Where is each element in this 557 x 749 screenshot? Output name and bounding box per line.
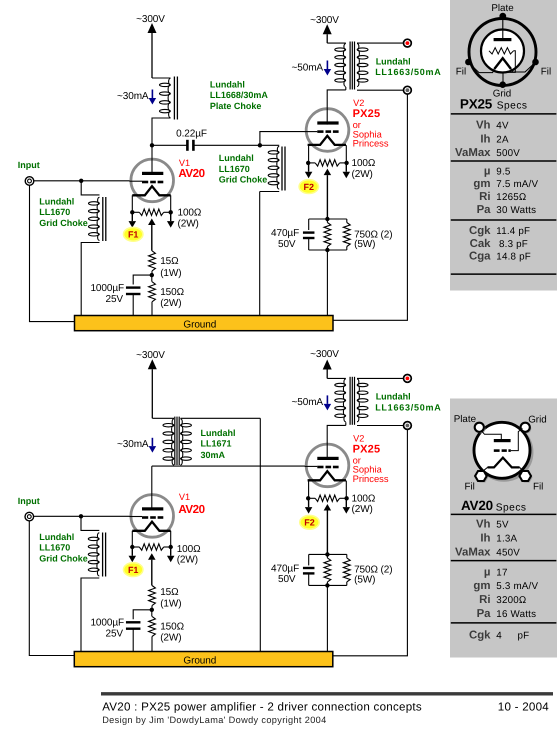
wire T3 secondary top to output terminal xyxy=(357,377,403,379)
svg-text:Input: Input xyxy=(18,496,40,506)
svg-text:5V: 5V xyxy=(496,519,509,530)
wire T2 secondary top to ground drop xyxy=(180,417,260,419)
svg-text:LL1663/50mA: LL1663/50mA xyxy=(375,402,441,412)
wire input shield to ground bar (circuit 1) xyxy=(30,185,75,321)
transformer T1 core xyxy=(349,42,351,90)
resistor R12 750 ohm cathode B (circuit 2) xyxy=(346,554,348,558)
inductor L2 Lundahl LL1670 grid choke (circuit 1 middle) xyxy=(260,144,279,146)
svg-text:0.22µF: 0.22µF xyxy=(176,128,207,139)
wire output terminal - to ground (circuit 2) xyxy=(333,429,407,655)
svg-text:16 Watts: 16 Watts xyxy=(496,609,536,620)
node IN1 junction input / grid choke xyxy=(79,179,83,183)
capacitor C1 0.22uF coupling xyxy=(186,140,189,151)
svg-text:Grid: Grid xyxy=(528,415,547,426)
wire B+ down arrow (circuit 2 right) xyxy=(326,370,328,379)
svg-text:~300V: ~300V xyxy=(136,14,165,25)
svg-text:9.5: 9.5 xyxy=(496,166,511,177)
svg-text:gm: gm xyxy=(473,580,490,592)
tube V2 PX25 output (circuit 1) xyxy=(306,109,349,152)
svg-text:30mA: 30mA xyxy=(201,450,226,460)
AV20 base diagram fil lead right xyxy=(520,467,524,471)
svg-text:Princess: Princess xyxy=(353,138,389,149)
wire node A1 to V1 plate xyxy=(151,145,153,172)
transformer T3 secondary coil xyxy=(357,383,368,386)
core of plate choke L1 xyxy=(173,77,175,120)
node K4 top junction (circuit 2) xyxy=(309,553,347,555)
PX25 base diagram plate pin dot xyxy=(499,13,506,20)
svg-text:µ: µ xyxy=(484,567,491,579)
svg-text:Princess: Princess xyxy=(353,473,389,484)
wire grid choke L2 bottom to ground xyxy=(259,192,261,316)
wire capacitor C2 to ground xyxy=(132,293,134,315)
resistor R1 100 ohm hum balance V1 (circuit 1) xyxy=(132,211,139,213)
AV20 base diagram fil lead left xyxy=(483,467,488,471)
arrow V2 cathode tap up (circuit 2) xyxy=(326,511,328,555)
svg-text:25V: 25V xyxy=(106,629,124,640)
svg-text:Grid Choke: Grid Choke xyxy=(219,175,268,185)
PX25 base diagram grid zigzag xyxy=(489,48,514,54)
svg-text:V1: V1 xyxy=(179,492,190,502)
AV20 base diagram envelope shadow xyxy=(476,424,532,480)
resistor R9 150 ohm cathode (circuit 2) xyxy=(151,610,153,617)
svg-text:Ri: Ri xyxy=(479,594,490,606)
AV20 base diagram plate bar xyxy=(494,439,511,442)
node IN2 junction input / grid choke xyxy=(79,514,83,518)
svg-text:LL1670: LL1670 xyxy=(39,543,70,553)
node A1 junction V1 plate / coupling cap xyxy=(150,143,154,147)
label F2 filament supply (circuit 2) xyxy=(300,515,319,529)
svg-text:(2W): (2W) xyxy=(160,633,181,644)
arrow V1 filament right down (circuit 2) xyxy=(170,547,172,556)
svg-text:Vh: Vh xyxy=(476,120,491,132)
wire node A1 to capacitor C1 xyxy=(152,144,187,146)
AV20 base diagram plate pin xyxy=(476,424,485,433)
transformer T3 primary coil xyxy=(335,383,346,386)
arrow V1 filament right down xyxy=(170,212,172,221)
PX25 base diagram outer ring xyxy=(469,19,536,86)
label F1 filament supply (circuit 2) xyxy=(124,563,143,577)
svg-text:Ground: Ground xyxy=(183,319,216,330)
wire T2 secondary drop to ground (circuit 2) xyxy=(259,418,261,651)
svg-text:µ: µ xyxy=(484,165,491,177)
wire cathode network to ground (circuit 2) xyxy=(326,585,328,651)
AV20 base diagram grid lead xyxy=(511,429,523,451)
AV20 base diagram grid pin xyxy=(522,424,531,433)
svg-text:(2W): (2W) xyxy=(178,218,199,229)
transformer T3 core xyxy=(349,377,351,425)
node K2 bottom junction (circuit 1) xyxy=(309,249,347,251)
separator line PX25 panel 2 xyxy=(451,160,557,162)
footer separator rule xyxy=(101,692,553,695)
tube V1 AV20 driver (circuit 2) xyxy=(131,495,174,538)
terminal output + (circuit 2) xyxy=(404,375,412,383)
wire V1 filament legs down (circuit 1) xyxy=(131,195,133,212)
separator line PX25 panel 4 xyxy=(451,273,557,275)
svg-text:V2: V2 xyxy=(353,434,364,444)
svg-text:Input: Input xyxy=(18,160,40,170)
svg-text:LL1670: LL1670 xyxy=(39,207,70,217)
transformer T3 Lundahl LL1663 output primary wire xyxy=(327,377,346,379)
svg-text:Pa: Pa xyxy=(477,204,492,216)
svg-text:Lundahl: Lundahl xyxy=(210,80,245,90)
svg-text:Specs: Specs xyxy=(496,502,527,513)
svg-text:Grid Choke: Grid Choke xyxy=(39,553,88,563)
wire T2 bottom to V1 plate and V2 grid (circuit 2) xyxy=(152,465,317,467)
arrow V2 cathode tap up (circuit 1) xyxy=(326,175,328,219)
resistor R6 750 ohm cathode B (circuit 1) xyxy=(346,219,348,223)
svg-text:1000µF: 1000µF xyxy=(90,283,124,294)
connector J2 input jack (circuit 2) xyxy=(25,512,34,521)
wire node K1 to capacitor C2 xyxy=(133,275,152,284)
svg-text:100Ω: 100Ω xyxy=(178,208,202,219)
node K2 top junction (circuit 1) xyxy=(309,218,347,220)
transformer T2 Lundahl LL1671 interstage primary wire xyxy=(152,417,174,419)
svg-text:LL1670: LL1670 xyxy=(219,164,250,174)
inductor L1 Lundahl LL1668 plate choke coil xyxy=(160,83,171,86)
wire grid choke L3 bottom to ground xyxy=(81,243,99,316)
svg-text:17: 17 xyxy=(496,568,507,579)
svg-text:~300V: ~300V xyxy=(136,350,165,361)
AV20 base diagram envelope xyxy=(474,422,530,478)
PX25 base diagram envelope xyxy=(481,30,524,73)
svg-text:Design by Jim 'DowdyLama' Dowd: Design by Jim 'DowdyLama' Dowdy copyrigh… xyxy=(102,715,326,725)
node K1 cathode junction (circuit 1) xyxy=(151,271,153,275)
svg-text:15Ω: 15Ω xyxy=(160,256,179,267)
wire node IN1 down to grid choke L3 xyxy=(81,181,99,195)
svg-text:Plate: Plate xyxy=(454,414,477,425)
svg-text:Fil: Fil xyxy=(456,67,466,78)
separator line AV20 panel 2 xyxy=(451,560,557,562)
svg-text:11.4 pF: 11.4 pF xyxy=(496,226,530,237)
svg-text:F2: F2 xyxy=(304,518,315,528)
svg-text:4V: 4V xyxy=(496,121,509,132)
svg-text:(2W): (2W) xyxy=(352,169,373,180)
PX25 base diagram fil lead right xyxy=(511,62,536,72)
svg-text:(1W): (1W) xyxy=(160,268,181,279)
svg-text:Pa: Pa xyxy=(477,608,492,620)
arrow V2 filament right down (circuit 2) xyxy=(345,498,347,507)
svg-text:150Ω: 150Ω xyxy=(160,287,184,298)
transformer T1 secondary coil xyxy=(357,48,368,51)
wire B+ down with arrow (circuit 2 left) xyxy=(151,369,153,418)
svg-text:14.8 pF: 14.8 pF xyxy=(496,252,531,263)
AV20 base diagram fil pin right xyxy=(521,473,533,483)
svg-text:Ground: Ground xyxy=(183,655,216,666)
svg-text:V2: V2 xyxy=(353,98,364,108)
svg-text:15Ω: 15Ω xyxy=(160,587,179,598)
wire node K3 to capacitor C4 xyxy=(133,610,152,619)
svg-text:1265Ω: 1265Ω xyxy=(496,192,526,203)
AV20 base diagram plate lead xyxy=(482,431,502,439)
wire node IN2 down to grid choke L4 xyxy=(81,516,99,530)
tube V2 PX25 output (circuit 2) xyxy=(306,444,349,487)
svg-text:Lundahl: Lundahl xyxy=(39,532,74,542)
resistor R10 100 ohm hum balance V2 (circuit 2) xyxy=(308,497,315,499)
svg-text:5.3 mA/V: 5.3 mA/V xyxy=(496,581,538,592)
svg-text:(2W): (2W) xyxy=(177,555,198,566)
transformer T2 core xyxy=(174,417,176,465)
svg-text:4: 4 xyxy=(496,630,502,641)
svg-text:30 Watts: 30 Watts xyxy=(496,205,536,216)
svg-text:Ih: Ih xyxy=(480,133,490,145)
wire input shield to ground bar (circuit 2) xyxy=(29,521,74,656)
svg-text:F1: F1 xyxy=(128,230,139,240)
arrow V1 cathode tap up (circuit 2) xyxy=(151,560,153,586)
svg-text:(5W): (5W) xyxy=(354,574,375,585)
resistor R5 750 ohm cathode A (circuit 1) xyxy=(326,219,328,223)
svg-text:(5W): (5W) xyxy=(354,239,375,250)
svg-text:8.3 pF: 8.3 pF xyxy=(499,239,528,250)
svg-text:Cgk: Cgk xyxy=(469,629,491,641)
arrow V2 filament right down (circuit 1) xyxy=(345,163,347,172)
svg-text:~50mA: ~50mA xyxy=(292,397,324,408)
svg-text:25V: 25V xyxy=(106,294,124,305)
svg-text:Lundahl: Lundahl xyxy=(376,56,411,66)
svg-text:50V: 50V xyxy=(278,239,296,250)
svg-text:LL1663/50mA: LL1663/50mA xyxy=(375,67,441,77)
core of grid choke L2 xyxy=(281,147,283,191)
wire capacitor C4 to ground xyxy=(132,628,134,651)
svg-text:Vh: Vh xyxy=(476,518,491,530)
svg-text:~300V: ~300V xyxy=(310,349,339,360)
capacitor C4 1000uF 25V (circuit 2) xyxy=(126,621,141,623)
ground bus bar (circuit 1) xyxy=(75,316,334,331)
wire V1 filament legs down (circuit 2) xyxy=(131,531,133,547)
svg-text:Plate Choke: Plate Choke xyxy=(210,101,262,111)
label F1 filament supply (circuit 1) xyxy=(124,227,143,241)
svg-text:F2: F2 xyxy=(304,182,315,192)
inductor L3 Lundahl LL1670 input grid choke (circuit 1) xyxy=(89,202,100,205)
terminal output + (circuit 1) xyxy=(404,39,412,47)
resistor R3 150 ohm cathode (circuit 1) xyxy=(151,275,153,282)
wire T1 secondary bottom to output terminal xyxy=(357,89,403,91)
wire B+ down with arrow (circuit 1 left) xyxy=(151,33,153,78)
node G2 junction cap / grid choke / V2 grid xyxy=(258,143,262,147)
svg-text:~50mA: ~50mA xyxy=(292,62,324,73)
svg-text:3200Ω: 3200Ω xyxy=(496,595,526,606)
arrow V1 filament left to F1 xyxy=(131,212,133,221)
wire grid choke L4 bottom to ground xyxy=(81,578,99,652)
svg-text:AV20: AV20 xyxy=(178,503,204,516)
svg-text:Lundahl: Lundahl xyxy=(219,153,254,163)
resistor R8 15 ohm cathode (circuit 2) xyxy=(149,586,156,606)
inductor L4 Lundahl LL1670 input grid choke (circuit 2) xyxy=(88,537,99,540)
transformer T1 primary coil xyxy=(335,48,346,51)
svg-text:Fil: Fil xyxy=(465,482,475,493)
svg-text:(2W): (2W) xyxy=(352,504,373,515)
separator line AV20 panel 1 xyxy=(451,513,557,515)
wire B+ corner to plate choke xyxy=(152,77,171,79)
svg-text:470µF: 470µF xyxy=(271,228,299,239)
svg-text:~30mA: ~30mA xyxy=(117,439,149,450)
arrow V1 filament left to F1 (circuit 2) xyxy=(131,547,133,556)
capacitor C3 470uF 50V (circuit 1) xyxy=(308,219,310,230)
wire resistor R3 to ground xyxy=(151,302,153,316)
svg-text:~300V: ~300V xyxy=(310,15,339,26)
svg-text:F1: F1 xyxy=(128,565,139,575)
wire T1 secondary top to output terminal xyxy=(357,42,403,44)
resistor R4 100 ohm hum balance V2 (circuit 1) xyxy=(308,162,315,164)
svg-text:Lundahl: Lundahl xyxy=(376,392,411,402)
PX25 base diagram plate lead xyxy=(502,16,504,38)
svg-text:Grid Choke: Grid Choke xyxy=(39,218,88,228)
transformer T1 Lundahl LL1663 output primary wire xyxy=(327,42,346,44)
svg-text:470µF: 470µF xyxy=(271,563,299,574)
svg-text:(1W): (1W) xyxy=(160,598,181,609)
svg-text:7.5 mA/V: 7.5 mA/V xyxy=(496,179,538,190)
svg-text:Cgk: Cgk xyxy=(469,225,491,237)
PX25 base diagram grid lead to grid pin xyxy=(503,51,515,82)
PX25 base diagram grid pin dot xyxy=(499,81,506,88)
panel PX25 specs background xyxy=(450,0,557,291)
wire T3 secondary bottom to output terminal xyxy=(357,425,403,427)
svg-text:AV20: AV20 xyxy=(178,167,204,180)
svg-text:1.3A: 1.3A xyxy=(496,534,517,545)
svg-text:VaMax: VaMax xyxy=(455,547,491,559)
transformer T2 primary coil xyxy=(163,424,174,427)
wire input to V1 grid (circuit 2) xyxy=(34,515,143,517)
PX25 base diagram fil pin dot right xyxy=(532,59,539,66)
capacitor C5 470uF 50V (circuit 2) xyxy=(308,554,310,565)
wire output terminal - to ground (circuit 1) xyxy=(333,94,407,320)
connector J1 input jack (circuit 1) xyxy=(25,177,34,186)
AV20 base diagram fil pin left xyxy=(477,473,489,483)
separator line PX25 panel 1 xyxy=(451,113,557,115)
svg-text:Plate: Plate xyxy=(491,3,514,14)
capacitor C2 1000uF 25V (circuit 1) xyxy=(126,286,141,288)
svg-text:pF: pF xyxy=(518,630,530,641)
svg-text:500V: 500V xyxy=(496,148,520,159)
svg-text:2A: 2A xyxy=(496,134,509,145)
svg-text:Lundahl: Lundahl xyxy=(201,428,236,438)
svg-text:Ri: Ri xyxy=(479,191,490,203)
svg-text:50V: 50V xyxy=(278,574,296,585)
svg-text:100Ω: 100Ω xyxy=(352,493,376,504)
svg-text:Ih: Ih xyxy=(480,533,490,545)
wire B+ down arrow (circuit 1 right) xyxy=(326,34,328,43)
arrow V2 filament left to F2 (circuit 2) xyxy=(308,498,310,507)
svg-text:10 - 2004: 10 - 2004 xyxy=(498,700,550,713)
core of grid choke L4 xyxy=(102,533,104,577)
node K4 bottom junction (circuit 2) xyxy=(309,584,347,586)
AV20 base diagram grid dashes xyxy=(494,449,500,452)
wire input to V1 grid (circuit 1) xyxy=(34,180,143,182)
terminal output - (circuit 2) xyxy=(404,422,412,430)
svg-text:LL1671: LL1671 xyxy=(201,439,232,449)
wire V2 filament legs down (circuit 2) xyxy=(308,481,310,499)
core of grid choke L3 xyxy=(102,197,104,241)
node K3 cathode junction (circuit 2) xyxy=(151,606,153,610)
panel AV20 specs background xyxy=(450,399,557,658)
arrow V2 filament left to F2 (circuit 1) xyxy=(308,163,310,172)
svg-text:LL1668/30mA: LL1668/30mA xyxy=(210,90,269,100)
svg-text:1000µF: 1000µF xyxy=(90,618,124,629)
ground bus bar (circuit 2) xyxy=(74,652,333,667)
svg-text:(2W): (2W) xyxy=(160,298,181,309)
transformer T2 secondary coil xyxy=(181,424,192,427)
arrow V1 cathode tap up xyxy=(151,225,153,251)
svg-text:Lundahl: Lundahl xyxy=(39,197,74,207)
svg-text:100Ω: 100Ω xyxy=(177,544,201,555)
wire T3 primary bottom to V2 plate xyxy=(327,425,346,457)
svg-text:Specs: Specs xyxy=(497,101,528,112)
svg-text:gm: gm xyxy=(473,178,490,190)
resistor R2 15 ohm cathode (circuit 1) xyxy=(149,251,156,271)
svg-text:PX25: PX25 xyxy=(460,96,493,111)
svg-text:VaMax: VaMax xyxy=(455,147,491,159)
separator line PX25 panel 3 xyxy=(451,219,557,221)
svg-text:~30mA: ~30mA xyxy=(117,91,149,102)
svg-text:100Ω: 100Ω xyxy=(352,158,376,169)
wire node G2 up and right to V2 grid xyxy=(260,132,317,146)
svg-text:150Ω: 150Ω xyxy=(160,622,184,633)
PX25 base diagram filament vee xyxy=(494,58,511,69)
wire resistor R9 to ground xyxy=(151,637,153,652)
label F2 filament supply (circuit 1) xyxy=(299,180,318,194)
svg-text:Cak: Cak xyxy=(470,238,492,250)
PX25 base diagram fil pin dot left xyxy=(465,59,472,66)
wire T1 primary bottom to V2 plate xyxy=(327,90,346,122)
wire V2 filament legs down (circuit 1) xyxy=(308,145,310,163)
tube V1 AV20 driver (circuit 1) xyxy=(131,159,174,202)
svg-text:AV20 : PX25 power amplifier -: AV20 : PX25 power amplifier - 2 driver c… xyxy=(102,700,422,713)
wire plate choke bottom to node A1 xyxy=(152,118,171,145)
svg-text:Cga: Cga xyxy=(469,251,491,263)
svg-text:Fil: Fil xyxy=(541,67,551,78)
terminal output - (circuit 1) xyxy=(404,86,412,94)
AV20 base diagram filament vee xyxy=(488,458,520,468)
separator line AV20 panel 3 xyxy=(451,622,557,624)
wire cathode network to ground (circuit 1) xyxy=(326,250,328,316)
resistor R11 750 ohm cathode A (circuit 2) xyxy=(326,554,328,558)
svg-text:Fil: Fil xyxy=(533,482,543,493)
svg-text:AV20: AV20 xyxy=(461,498,493,513)
wire capacitor C1 to node G2 xyxy=(194,144,260,146)
PX25 base diagram fil lead left xyxy=(468,62,494,72)
svg-text:450V: 450V xyxy=(496,548,520,559)
svg-text:Grid: Grid xyxy=(493,89,512,100)
PX25 base diagram plate bar xyxy=(494,38,512,41)
resistor R7 100 ohm hum balance V1 (circuit 2) xyxy=(132,546,139,548)
